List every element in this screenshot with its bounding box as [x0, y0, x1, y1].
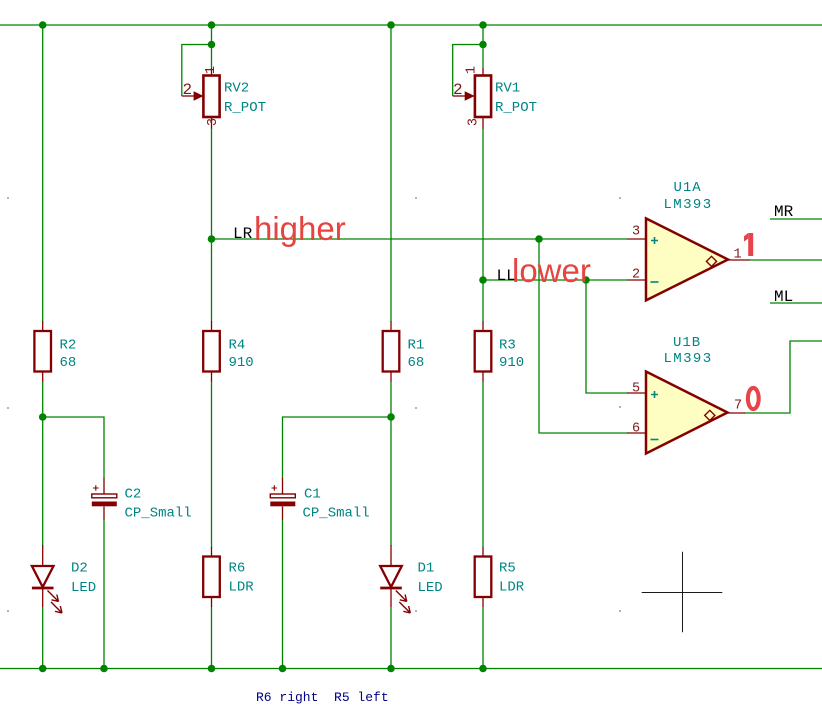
svg-text:2: 2	[183, 81, 193, 99]
svg-text:3: 3	[206, 118, 221, 126]
svg-text:R6 right R5 left: R6 right R5 left	[256, 690, 389, 705]
svg-text:D2: D2	[71, 561, 88, 577]
svg-text:LDR: LDR	[229, 580, 255, 596]
svg-text:910: 910	[229, 355, 254, 371]
svg-text:higher: higher	[254, 210, 346, 247]
svg-text:910: 910	[499, 355, 524, 371]
svg-text:R2: R2	[60, 338, 77, 354]
svg-text:1: 1	[465, 66, 480, 74]
svg-text:CP_Small: CP_Small	[303, 506, 370, 522]
svg-text:MR: MR	[774, 203, 794, 221]
svg-text:LED: LED	[418, 580, 443, 596]
svg-text:3: 3	[632, 225, 640, 240]
svg-text:C1: C1	[304, 487, 321, 503]
svg-text:lower: lower	[512, 252, 591, 289]
svg-text:68: 68	[60, 355, 77, 371]
svg-text:R3: R3	[499, 338, 516, 354]
svg-text:RV2: RV2	[224, 81, 249, 97]
svg-text:1: 1	[204, 66, 219, 74]
svg-text:LM393: LM393	[664, 197, 713, 213]
svg-text:D1: D1	[418, 561, 435, 577]
svg-text:R_POT: R_POT	[224, 100, 266, 116]
svg-text:6: 6	[632, 422, 640, 437]
svg-text:1: 1	[734, 248, 742, 263]
svg-text:R4: R4	[229, 338, 246, 354]
svg-text:CP_Small: CP_Small	[125, 506, 192, 522]
svg-text:LDR: LDR	[499, 580, 525, 596]
svg-text:R5: R5	[499, 561, 516, 577]
svg-text:5: 5	[632, 382, 640, 397]
svg-text:2: 2	[632, 268, 640, 283]
svg-text:ML: ML	[774, 288, 793, 306]
svg-text:LR: LR	[233, 225, 253, 243]
svg-text:3: 3	[467, 118, 482, 126]
svg-text:U1B: U1B	[673, 335, 701, 351]
svg-text:U1A: U1A	[674, 180, 702, 196]
svg-text:R6: R6	[229, 561, 246, 577]
svg-text:R1: R1	[408, 338, 425, 354]
svg-text:C2: C2	[125, 487, 142, 503]
svg-text:2: 2	[453, 81, 463, 99]
svg-text:RV1: RV1	[495, 81, 520, 97]
svg-text:R_POT: R_POT	[495, 100, 537, 116]
svg-text:7: 7	[734, 399, 742, 414]
svg-text:LED: LED	[71, 580, 96, 596]
svg-text:68: 68	[408, 355, 425, 371]
svg-text:LM393: LM393	[664, 351, 713, 367]
